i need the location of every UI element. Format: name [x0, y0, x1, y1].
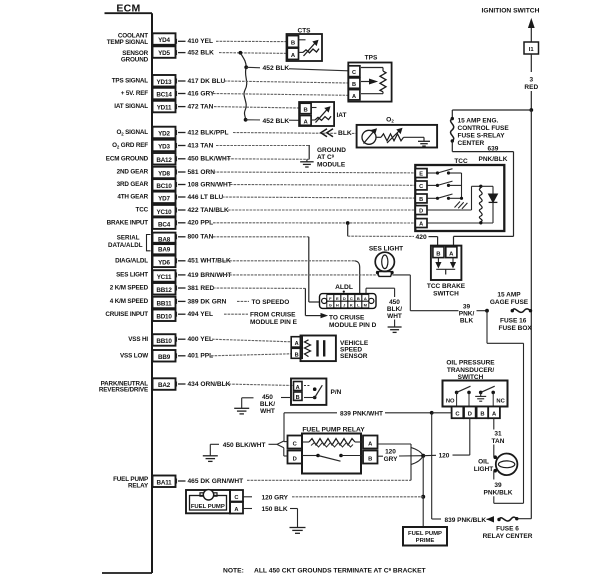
ECM pin YD5 wire label 452 BLK	[121, 46, 214, 63]
svg-text:YD7: YD7	[158, 196, 170, 203]
ECM pin BA8 wire label 800 TAN	[153, 233, 214, 245]
svg-text:120: 120	[385, 449, 396, 456]
ECM pin YD6 wire label 451 WHT/BLK	[115, 256, 231, 268]
svg-text:IAT: IAT	[337, 112, 347, 119]
svg-text:BLK/: BLK/	[387, 306, 402, 313]
svg-text:OIL PRESSURE: OIL PRESSURE	[446, 359, 495, 366]
svg-text:BC14: BC14	[156, 92, 172, 99]
svg-text:389 DK GRN: 389 DK GRN	[188, 298, 227, 305]
svg-text:IGNITION SWITCH: IGNITION SWITCH	[482, 7, 540, 14]
svg-text:RED: RED	[524, 84, 538, 91]
svg-text:2 K/M SPEED: 2 K/M SPEED	[110, 285, 149, 292]
svg-text:410 YEL: 410 YEL	[188, 38, 214, 45]
svg-text:BLK: BLK	[338, 130, 352, 137]
wire 800 TAN to ALDL connector	[213, 237, 320, 302]
svg-text:E: E	[336, 296, 339, 301]
svg-text:CONTROL FUSE: CONTROL FUSE	[458, 125, 510, 132]
wire 581 ORN to TCC pin E	[213, 171, 415, 174]
wire ignition feed down right side to gage fuse and fuse 6	[530, 110, 532, 519]
switch oil pressure transducer	[443, 359, 508, 418]
wire 839 PNK/BLK from fuse 6	[432, 413, 494, 524]
svg-text:YC11: YC11	[157, 274, 172, 281]
svg-text:GROUND: GROUND	[121, 57, 149, 64]
svg-text:MODULE PIN D: MODULE PIN D	[329, 322, 377, 329]
ECM pin YC11 wire label 419 BRN/WHT	[116, 270, 231, 282]
ECM pin YD7 wire label 446 LT BLU	[117, 192, 223, 204]
ECM pin YD13 wire label 417 DK BLU	[112, 75, 226, 87]
wire 120 GRY down to fuel pump prime	[421, 456, 425, 527]
svg-text:A: A	[295, 341, 299, 347]
svg-text:BC4: BC4	[158, 221, 171, 228]
svg-text:PRIME: PRIME	[416, 538, 435, 544]
svg-text:B: B	[303, 108, 307, 114]
svg-text:BA11: BA11	[157, 479, 173, 486]
ground symbol at C9 module	[300, 147, 346, 169]
svg-text:B: B	[419, 197, 423, 203]
svg-text:581 ORN: 581 ORN	[188, 169, 216, 176]
svg-text:B: B	[480, 412, 484, 418]
svg-text:120 GRY: 120 GRY	[262, 494, 289, 501]
svg-text:WHT: WHT	[387, 313, 402, 320]
wire 465 DK GRN/WHT to relay pin A	[247, 444, 411, 480]
svg-text:412 BLK/PPL: 412 BLK/PPL	[188, 129, 229, 136]
svg-text:452 BLK: 452 BLK	[263, 118, 290, 125]
svg-text:SES LIGHT: SES LIGHT	[116, 272, 148, 279]
wire 451 WHT/BLK to ALDL connector	[222, 261, 360, 294]
wire 412 BLK/PPL to O2 sensor with inline connector and BLK label	[233, 128, 357, 138]
svg-text:TPS SIGNAL: TPS SIGNAL	[112, 78, 149, 85]
ECM pin YD3 wire label 413 TAN	[112, 140, 214, 152]
switch TCC brake switch	[427, 246, 466, 298]
wire 419 BRN/WHT to SES light	[222, 274, 378, 276]
svg-text:BB9: BB9	[158, 354, 171, 361]
svg-text:472 TAN: 472 TAN	[188, 104, 214, 111]
svg-text:150 BLK: 150 BLK	[262, 506, 288, 513]
ECM pin BC4 wire label 420 PPL	[107, 217, 214, 229]
svg-text:417 DK BLU: 417 DK BLU	[188, 78, 226, 85]
svg-text:FROM CRUISE: FROM CRUISE	[250, 311, 296, 318]
svg-text:G: G	[329, 303, 332, 308]
svg-text:BLK/: BLK/	[260, 401, 275, 408]
svg-text:A: A	[234, 507, 238, 513]
svg-text:VSS HI: VSS HI	[128, 336, 148, 343]
svg-text:DATA/ALDL: DATA/ALDL	[108, 242, 143, 249]
svg-text:REVERSE/DRIVE: REVERSE/DRIVE	[99, 386, 148, 393]
wire fuse box down to oil light circuit	[523, 343, 525, 503]
svg-text:BB11: BB11	[157, 301, 173, 308]
svg-text:B: B	[296, 395, 300, 401]
svg-text:A: A	[449, 251, 454, 257]
wire 472 TAN to IAT pin B	[214, 107, 300, 108]
svg-text:PNK/BLK: PNK/BLK	[484, 490, 513, 497]
svg-text:B: B	[357, 296, 360, 301]
svg-text:A: A	[352, 94, 356, 100]
ECM module outline	[102, 3, 152, 574]
wire 120 GRY splice at fuel pump feed	[378, 418, 470, 464]
svg-text:120: 120	[439, 453, 450, 460]
svg-text:TCC BRAKE: TCC BRAKE	[427, 283, 466, 290]
svg-text:C: C	[234, 495, 238, 501]
ECM pin BA9	[153, 243, 176, 255]
svg-text:TO SPEEDO: TO SPEEDO	[252, 299, 290, 306]
ECM pin BA12 wire label 450 BLK/WHT	[106, 153, 231, 165]
svg-text:BRAKE INPUT: BRAKE INPUT	[107, 219, 149, 226]
svg-text:FUEL PUMP: FUEL PUMP	[191, 504, 225, 510]
svg-text:B: B	[291, 41, 295, 47]
svg-text:NC: NC	[496, 399, 505, 405]
svg-text:I1: I1	[529, 47, 535, 53]
fuse 15 amp gage	[490, 292, 532, 313]
ECM pin BC14 wire label 416 GRY	[121, 88, 215, 100]
svg-text:BB12: BB12	[156, 287, 172, 294]
svg-text:BA9: BA9	[158, 247, 171, 254]
svg-text:YD2: YD2	[158, 131, 170, 138]
svg-text:FUSE 16: FUSE 16	[500, 318, 527, 325]
svg-text:TAN: TAN	[492, 438, 505, 445]
svg-text:ALDL: ALDL	[335, 284, 353, 291]
svg-text:FUSE 6: FUSE 6	[496, 525, 519, 532]
svg-text:4TH GEAR: 4TH GEAR	[117, 194, 148, 201]
note text	[223, 567, 427, 575]
svg-text:D: D	[468, 412, 472, 418]
svg-text:381 RED: 381 RED	[188, 285, 215, 292]
svg-text:2ND GEAR: 2ND GEAR	[117, 169, 149, 176]
svg-text:A: A	[296, 385, 300, 391]
ECM pin BB11 wire label 389 DK GRN	[110, 297, 227, 309]
svg-text:ALL 450 CKT GROUNDS TERMINATE: ALL 450 CKT GROUNDS TERMINATE AT C9 BRAC…	[254, 567, 427, 575]
svg-text:434 ORN/BLK: 434 ORN/BLK	[188, 381, 231, 388]
svg-text:YC10: YC10	[157, 209, 173, 216]
svg-text:YD11: YD11	[157, 105, 172, 112]
ECM pin YD4 wire label 410 YEL	[107, 32, 213, 46]
ECM pin YD8 wire label 581 ORN	[117, 167, 216, 179]
SERIAL DATA/ALDL label and brace	[108, 235, 150, 251]
ECM pin BD10 wire label 494 YEL	[105, 310, 213, 322]
svg-text:39: 39	[463, 303, 471, 310]
wire 452 BLK sensor ground bus	[219, 51, 288, 122]
svg-text:31: 31	[494, 430, 502, 437]
wire 839 PNK/WHT	[284, 407, 452, 441]
sensor TPS potentiometer	[348, 55, 391, 102]
svg-text:YD4: YD4	[158, 37, 170, 44]
svg-text:B: B	[436, 251, 440, 257]
svg-text:DIAG/ALDL: DIAG/ALDL	[115, 257, 148, 264]
fuse 6 relay center	[483, 517, 533, 540]
svg-text:YD8: YD8	[158, 171, 170, 178]
svg-text:SERIAL: SERIAL	[117, 235, 140, 242]
svg-text:TPS: TPS	[365, 55, 378, 62]
svg-text:FUEL PUMP: FUEL PUMP	[408, 531, 442, 537]
svg-text:E: E	[419, 172, 423, 178]
wire 450 BLK/WHT from ALDL to ground	[366, 288, 402, 332]
svg-text:PNK/BLK: PNK/BLK	[479, 156, 508, 163]
wire 420 PPL to TCC pin A with junction	[213, 221, 415, 225]
svg-text:GRY: GRY	[384, 456, 399, 463]
svg-text:400 YEL: 400 YEL	[188, 336, 214, 343]
ECM pin BB9 wire label 401 PPL	[120, 350, 213, 362]
ECM pin BB12 wire label 381 RED	[110, 283, 215, 295]
wire 410 YEL to CTS pin B	[216, 40, 288, 42]
svg-text:A: A	[419, 222, 423, 228]
svg-text:A: A	[364, 296, 367, 301]
svg-text:TEMP SIGNAL: TEMP SIGNAL	[107, 39, 149, 46]
svg-text:TCC: TCC	[136, 207, 149, 214]
wire 108 GRN/WHT to TCC pin C	[230, 184, 415, 187]
wire 150 BLK from fuel pump to ground	[244, 506, 306, 533]
sensor O2 with voltage source and ground	[357, 117, 438, 148]
wire 417 DK BLU to TPS pin B	[224, 81, 349, 83]
svg-text:416 GRY: 416 GRY	[188, 90, 215, 97]
sensor CTS	[287, 27, 323, 61]
wire to fuse 16 fuse box	[487, 311, 532, 344]
ECM pin BA11 wire label 465 DK GRN/WHT	[113, 476, 243, 490]
svg-text:452 BLK: 452 BLK	[188, 50, 215, 57]
svg-text:YD5: YD5	[158, 50, 170, 57]
svg-text:MODULE: MODULE	[317, 161, 346, 168]
svg-text:GAGE FUSE: GAGE FUSE	[490, 299, 529, 306]
connector ALDL	[320, 284, 377, 308]
svg-text:452 BLK: 452 BLK	[263, 65, 290, 72]
svg-text:C: C	[419, 184, 423, 190]
svg-text:MODULE PIN E: MODULE PIN E	[250, 319, 298, 326]
svg-text:494 YEL: 494 YEL	[188, 311, 214, 318]
svg-text:CENTER: CENTER	[458, 140, 485, 147]
svg-text:A: A	[303, 120, 308, 126]
wire 452 BLK branch to TPS pin C with label	[246, 63, 348, 73]
svg-text:413 TAN: 413 TAN	[188, 142, 214, 149]
TCC internal gear switches	[427, 169, 467, 209]
svg-text:+ 5V. REF: + 5V. REF	[121, 90, 149, 97]
svg-text:A: A	[291, 53, 296, 59]
wire 434 ORN/BLK to P/N switch pin A	[225, 384, 294, 386]
svg-text:450: 450	[389, 299, 400, 306]
sensor vehicle speed sensor	[291, 336, 369, 362]
svg-text:BA2: BA2	[158, 382, 171, 389]
wire 39 PNK/BLK from oil light to fuse 16 line	[484, 471, 524, 503]
svg-text:VSS LOW: VSS LOW	[120, 352, 148, 359]
motor fuel pump	[186, 490, 243, 514]
lamp oil light	[474, 454, 518, 476]
svg-text:15 AMP ENG.: 15 AMP ENG.	[458, 117, 499, 124]
switch P/N park neutral	[291, 379, 342, 405]
wire 422 TAN/BLK to TCC pin D	[228, 209, 415, 211]
svg-text:420 PPL: 420 PPL	[188, 220, 214, 227]
svg-text:IAT SIGNAL: IAT SIGNAL	[114, 103, 148, 110]
svg-text:419 BRN/WHT: 419 BRN/WHT	[188, 272, 232, 279]
ECM pin BC10 wire label 108 GRN/WHT	[117, 179, 232, 191]
wire 400 YEL to VSS pin A	[212, 339, 292, 342]
svg-text:108 GRN/WHT: 108 GRN/WHT	[188, 181, 232, 188]
wire 31 TAN from oil pressure switch pin A	[492, 418, 505, 457]
svg-text:CRUISE INPUT: CRUISE INPUT	[105, 311, 148, 318]
ignition switch feed arrow	[482, 7, 540, 41]
connector I1	[524, 42, 539, 54]
svg-text:465 DK GRN/WHT: 465 DK GRN/WHT	[188, 478, 244, 485]
svg-text:446 LT BLU: 446 LT BLU	[188, 194, 224, 201]
wire 494 YEL from cruise module	[224, 311, 298, 325]
svg-text:ECM GROUND: ECM GROUND	[106, 155, 149, 162]
TCC solenoid coil and diode	[427, 185, 497, 225]
wire 381 RED to cruise module	[213, 288, 377, 329]
svg-text:420: 420	[416, 234, 427, 241]
wire 420 branch to TCC brake switch pin B	[348, 223, 438, 247]
wire 413 TAN to ground at module	[216, 145, 309, 159]
svg-text:NO: NO	[446, 399, 455, 405]
module fuel pump prime	[403, 527, 447, 546]
svg-text:839 PNK/BLK: 839 PNK/BLK	[445, 517, 487, 524]
svg-text:BB10: BB10	[156, 338, 172, 345]
svg-text:YD3: YD3	[158, 144, 170, 151]
svg-text:BD10: BD10	[156, 313, 172, 320]
svg-text:839 PNK/WHT: 839 PNK/WHT	[340, 410, 383, 417]
svg-text:H: H	[336, 303, 339, 308]
wire 452 BLK branch to IAT pin A with label	[246, 116, 300, 125]
svg-text:3: 3	[529, 77, 533, 84]
svg-text:39: 39	[494, 482, 502, 489]
svg-text:BA12: BA12	[156, 157, 172, 164]
svg-text:OIL: OIL	[478, 459, 489, 466]
svg-text:800 TAN: 800 TAN	[188, 234, 214, 241]
lamp SES light	[369, 246, 403, 277]
svg-text:FUSE BOX: FUSE BOX	[499, 325, 533, 332]
svg-text:P/N: P/N	[331, 389, 342, 396]
wire 450 BLK/WHT from P/N switch to ground	[234, 394, 291, 415]
sensor IAT	[299, 102, 346, 126]
svg-text:B: B	[352, 82, 356, 88]
ECM pin BB10 wire label 400 YEL	[128, 334, 213, 346]
svg-text:RELAY: RELAY	[128, 482, 149, 489]
svg-text:TRANSDUCER/: TRANSDUCER/	[447, 367, 495, 374]
svg-text:C: C	[352, 70, 356, 76]
wire 3 RED from I1 to splice	[524, 54, 539, 112]
wire 450 BLK/WHT ECM ground to ground at module	[224, 158, 310, 161]
svg-text:YD6: YD6	[158, 260, 170, 267]
fuse 15 amp engine control	[451, 110, 532, 152]
wire 446 LT BLU to TCC pin B	[222, 197, 415, 198]
ECM pin YD2 wire label 412 BLK/PPL	[116, 127, 228, 139]
svg-text:FUSE S-RELAY: FUSE S-RELAY	[458, 132, 506, 139]
svg-text:RELAY CENTER: RELAY CENTER	[483, 533, 533, 540]
svg-text:D: D	[419, 209, 423, 215]
svg-text:SENSOR: SENSOR	[340, 353, 368, 360]
wire 450 BLK/WHT to relay with ground and chevron splice	[203, 441, 288, 461]
svg-text:BLK: BLK	[460, 317, 474, 324]
ECM pin YD11 wire label 472 TAN	[114, 101, 213, 113]
svg-text:B: B	[295, 353, 299, 359]
ECM pin YC10 wire label 422 TAN/BLK	[136, 205, 230, 217]
svg-text:401 PPL: 401 PPL	[188, 353, 214, 360]
svg-text:K: K	[350, 303, 353, 308]
module TCC	[415, 158, 504, 231]
svg-text:YD13: YD13	[157, 79, 173, 86]
svg-text:PNK/: PNK/	[459, 310, 475, 317]
wire 639 PNK/BLK to TCC brake switch	[452, 146, 513, 247]
svg-text:B: B	[368, 457, 372, 463]
wire 39 PNK/BLK from SES light to gage fuse splice	[392, 275, 489, 324]
wire 401 PPL to VSS pin B	[211, 354, 292, 356]
svg-text:WHT: WHT	[260, 408, 275, 415]
svg-text:D: D	[343, 296, 346, 301]
wire 416 GRY to TPS pin A	[213, 94, 349, 96]
svg-text:15 AMP: 15 AMP	[497, 292, 521, 299]
svg-text:NOTE:: NOTE:	[223, 567, 244, 574]
svg-text:422 TAN/BLK: 422 TAN/BLK	[188, 207, 230, 214]
svg-text:450: 450	[262, 394, 273, 401]
svg-text:D: D	[293, 457, 297, 463]
svg-text:LIGHT: LIGHT	[474, 466, 494, 473]
svg-text:4 K/M SPEED: 4 K/M SPEED	[110, 298, 149, 305]
svg-text:BC10: BC10	[156, 183, 172, 190]
svg-text:639: 639	[488, 146, 499, 153]
svg-text:450 BLK/WHT: 450 BLK/WHT	[223, 442, 266, 449]
relay fuel pump relay	[288, 427, 378, 474]
wire 389 DK GRN to speedo	[237, 299, 289, 306]
wire 120 GRY from fuel pump	[244, 494, 424, 501]
svg-text:SWITCH: SWITCH	[433, 290, 459, 297]
ECM pin BA2 wire label 434 ORN/BLK	[99, 378, 231, 393]
svg-text:C: C	[350, 296, 353, 301]
svg-text:3RD GEAR: 3RD GEAR	[117, 181, 149, 188]
svg-text:J: J	[343, 303, 345, 308]
svg-text:TO CRUISE: TO CRUISE	[329, 315, 365, 322]
